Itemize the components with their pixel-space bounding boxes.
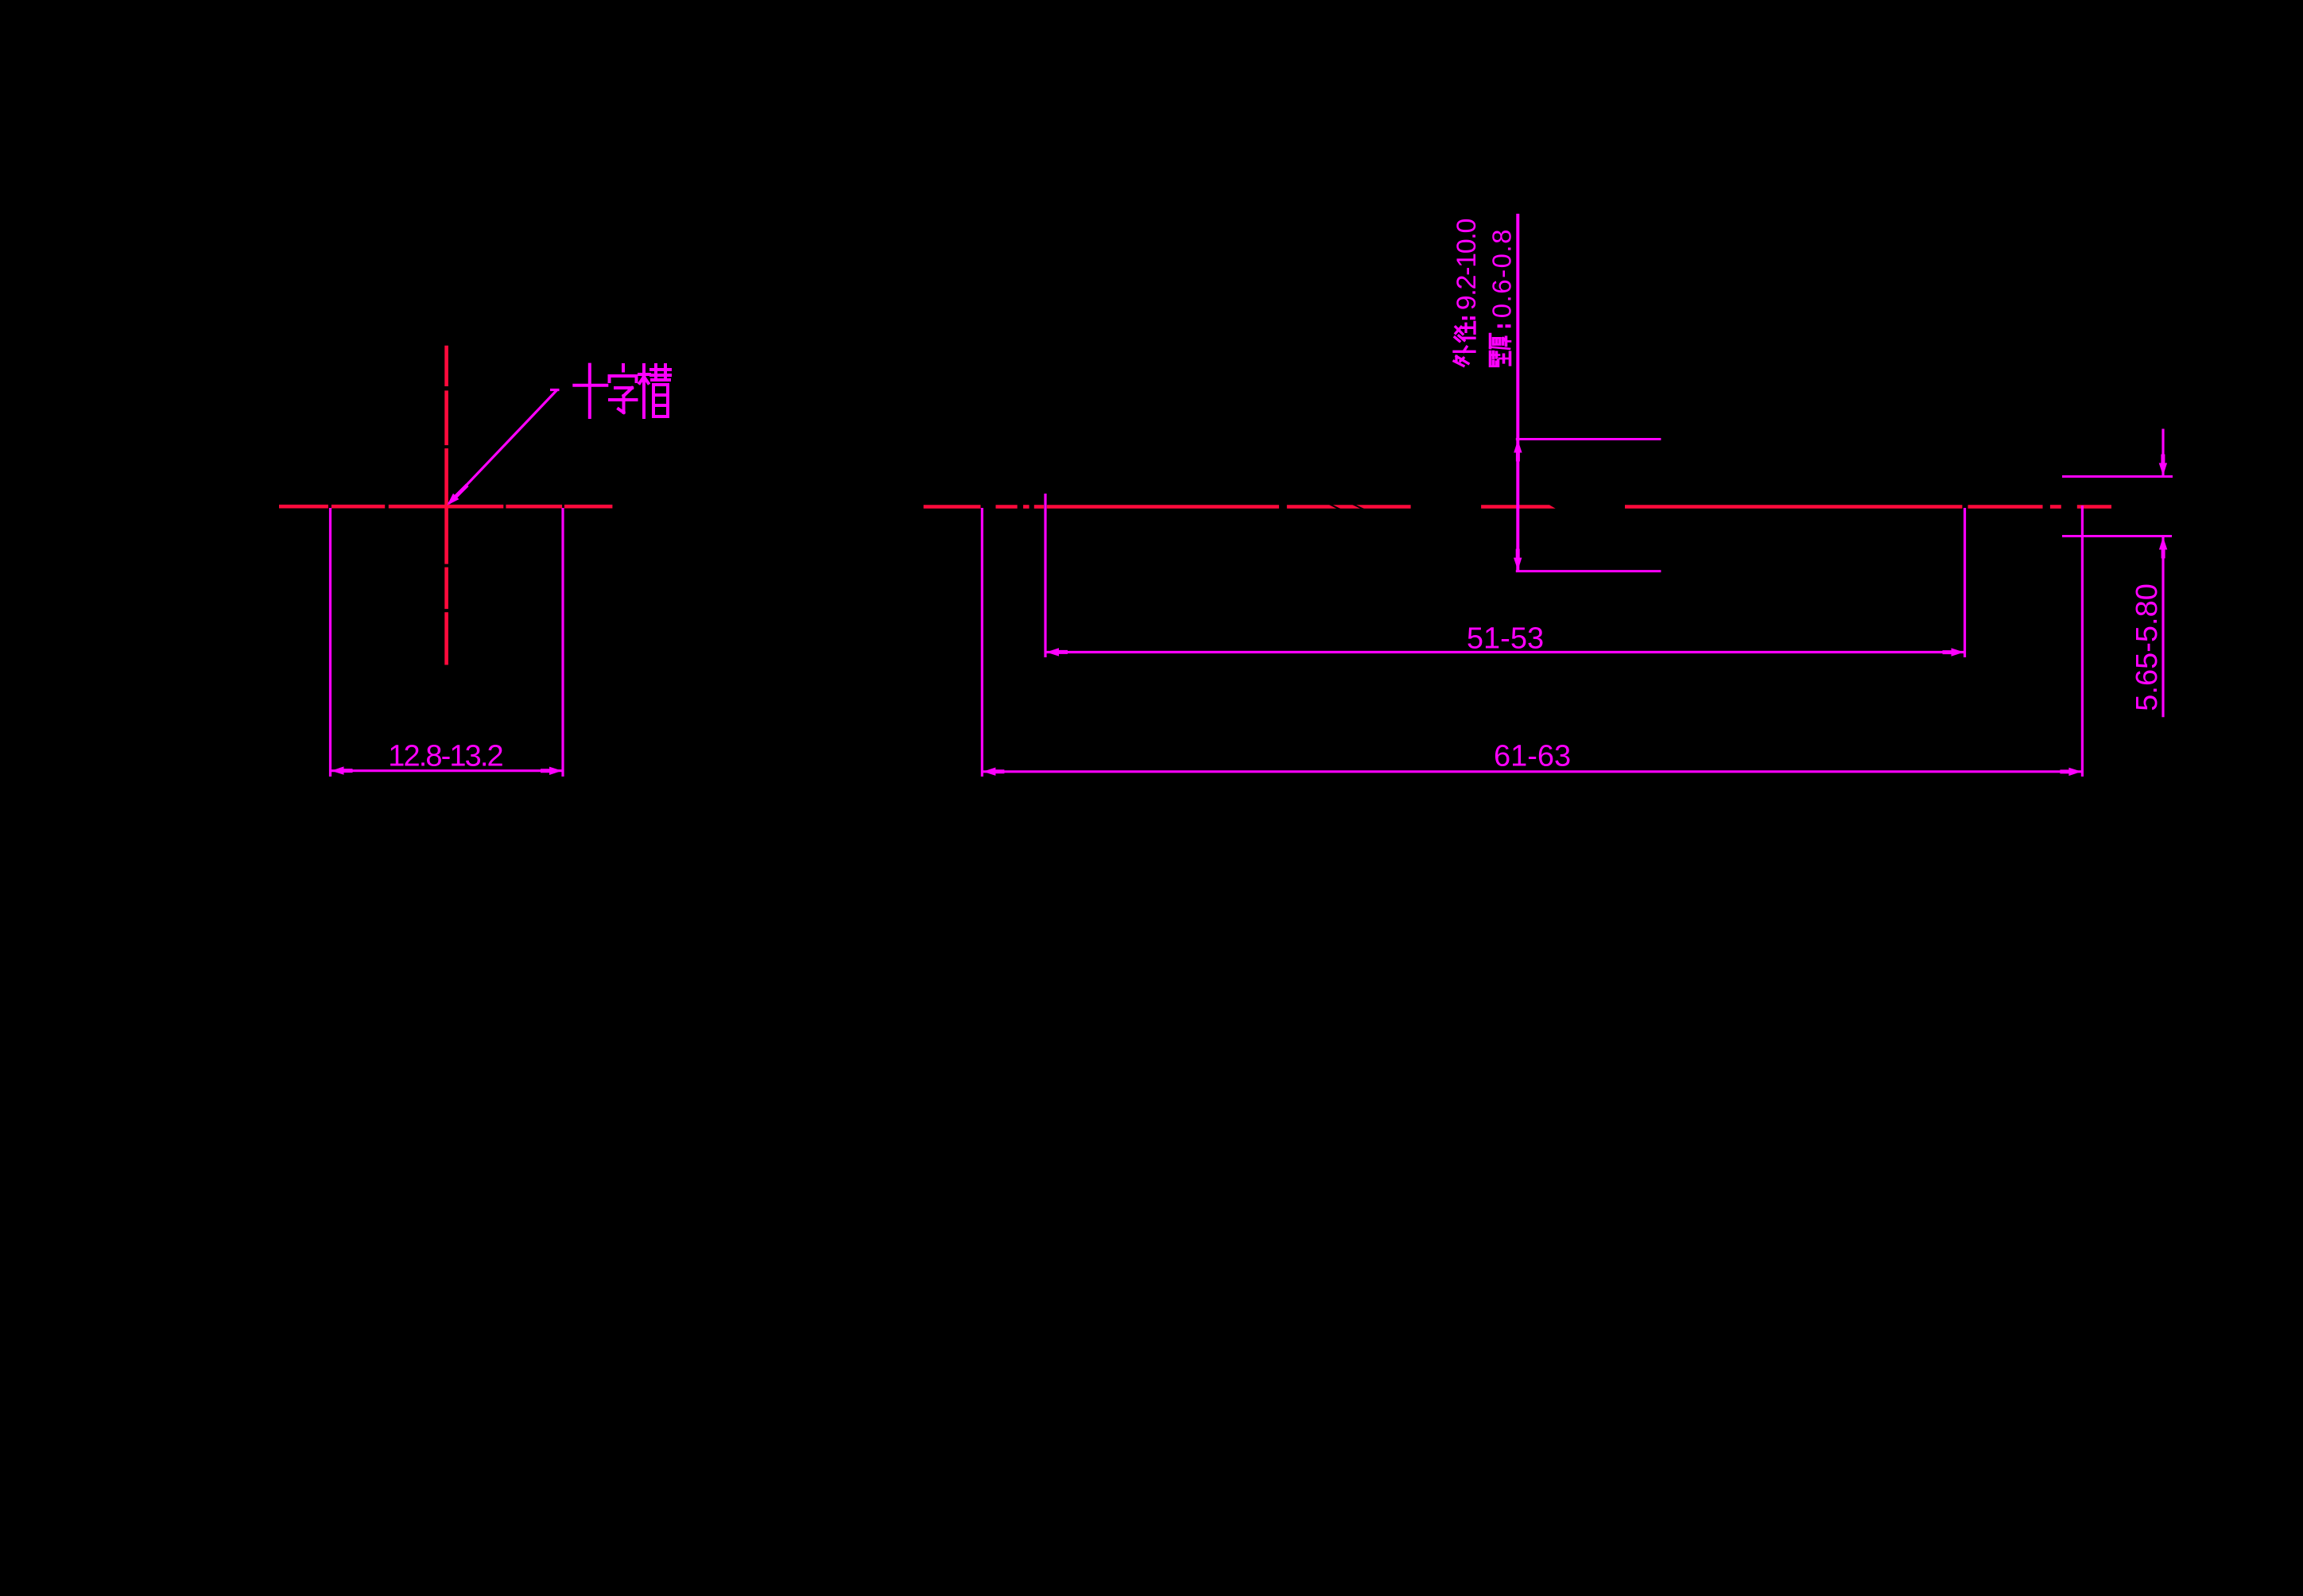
red centerline segment with two break slits xyxy=(1287,505,1411,509)
leader line to cross slot xyxy=(449,390,557,504)
rotated label 壁厚: 0.6-0.8 xyxy=(1487,228,1517,366)
left view: extension line right (12.8-13.2) xyxy=(561,508,564,777)
right view: extension line 51-53 right xyxy=(1964,508,1966,657)
arrow up at wall lower tick xyxy=(2159,537,2167,559)
right view: extension line 51-53 left xyxy=(1044,494,1046,657)
arrow right of dimension 12.8-13.2 xyxy=(541,767,562,775)
dimension line 61-63 xyxy=(982,770,2082,773)
left view: red vertical centerline of cross slot xyxy=(444,346,448,386)
tube diameter vertical dimension line xyxy=(1516,214,1519,571)
arrow down at wall upper tick xyxy=(2159,455,2167,476)
svg-text:12.8-13.2: 12.8-13.2 xyxy=(388,740,502,773)
arrow up at tube upper tick xyxy=(1514,440,1522,462)
red centerline segment with slanted end xyxy=(1481,505,1556,509)
svg-text:9.2-10.0: 9.2-10.0 xyxy=(1452,219,1482,311)
arrow left of dimension 51-53 xyxy=(1046,648,1068,656)
right view: extension line 61-63 right xyxy=(2081,506,2084,777)
arrow left of dimension 12.8-13.2 xyxy=(331,766,353,774)
leader arrowhead at centerline intersection xyxy=(444,482,471,509)
dimension line 51-53 xyxy=(1045,651,1965,653)
tube upper tick line xyxy=(1516,438,1661,440)
left view: red horizontal centerline xyxy=(279,505,328,509)
wall dim vertical line upper part xyxy=(2161,429,2164,477)
left view: extension line left (12.8-13.2) xyxy=(329,508,331,777)
svg-text:61-63: 61-63 xyxy=(1494,740,1571,773)
svg-text:0.6-0.8: 0.6-0.8 xyxy=(1487,228,1517,318)
wall dimension upper tick xyxy=(2062,475,2173,478)
wall dimension lower tick xyxy=(2062,535,2172,537)
label text 十字槽 (cross slot) xyxy=(574,365,607,417)
wall dim vertical line lower part xyxy=(2161,537,2164,718)
right view: red centerline of tube xyxy=(924,505,981,509)
right view: extension line 61-63 left xyxy=(981,508,983,777)
left view: dimension line 12.8-13.2 xyxy=(331,769,564,772)
rotated dimension text 5.65-5.80 xyxy=(2130,583,2164,711)
tube lower tick line xyxy=(1516,570,1661,572)
svg-text:51-53: 51-53 xyxy=(1467,622,1544,656)
rotated label 外径: 9.2-10.0 xyxy=(1452,219,1482,366)
svg-text:5.65-5.80: 5.65-5.80 xyxy=(2130,583,2164,711)
arrow right of dimension 51-53 xyxy=(1943,648,1964,656)
arrow left of dimension 61-63 xyxy=(983,768,1004,776)
arrow right of dimension 61-63 xyxy=(2060,768,2081,776)
arrow down at tube lower tick xyxy=(1514,549,1522,571)
